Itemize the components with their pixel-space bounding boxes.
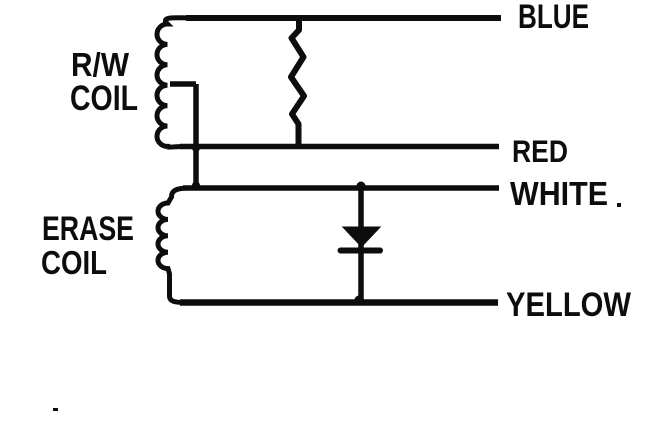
- junction center-tap wire meeting WHITE line: [192, 182, 200, 190]
- wire center tap from R/W coil: [170, 81, 196, 87]
- speck after WHITE: [617, 203, 621, 207]
- speck bottom-left: [53, 408, 58, 411]
- svg-text:ERASE: ERASE: [42, 210, 134, 248]
- svg-text:YELLOW: YELLOW: [506, 286, 631, 324]
- wire vertical from center tap down to WHITE line: [193, 84, 199, 188]
- inductor ERASE COIL (winding with 4 arcs between WHITE and YELLOW lines): [158, 188, 190, 303]
- svg-text:WHITE: WHITE: [510, 175, 608, 212]
- inductor R/W COIL (winding with 6 arcs between BLUE and RED lines): [157, 18, 192, 147]
- svg-text:COIL: COIL: [70, 79, 138, 118]
- wire YELLOW line (bottom horizontal): [180, 299, 498, 306]
- wire WHITE line (third horizontal): [183, 185, 499, 191]
- junction diode at YELLOW line: [355, 296, 364, 305]
- resistor (hand-drawn zigzag between BLUE and RED lines): [291, 20, 304, 145]
- svg-text:COIL: COIL: [41, 244, 107, 281]
- svg-text:R/W: R/W: [71, 46, 130, 83]
- junction diode at WHITE line: [357, 182, 366, 191]
- diode D1 cathode bar: [341, 248, 381, 254]
- wire BLUE line (top horizontal): [186, 15, 501, 21]
- diode D1 vertical wire between WHITE and YELLOW lines: [358, 186, 364, 302]
- junction center-tap wire crossing RED line: [192, 144, 200, 152]
- diode D1 anode triangle (pointing down): [344, 228, 379, 247]
- svg-text:RED: RED: [512, 133, 568, 169]
- svg-text:BLUE: BLUE: [518, 0, 589, 36]
- wire RED line (second horizontal): [180, 144, 499, 150]
